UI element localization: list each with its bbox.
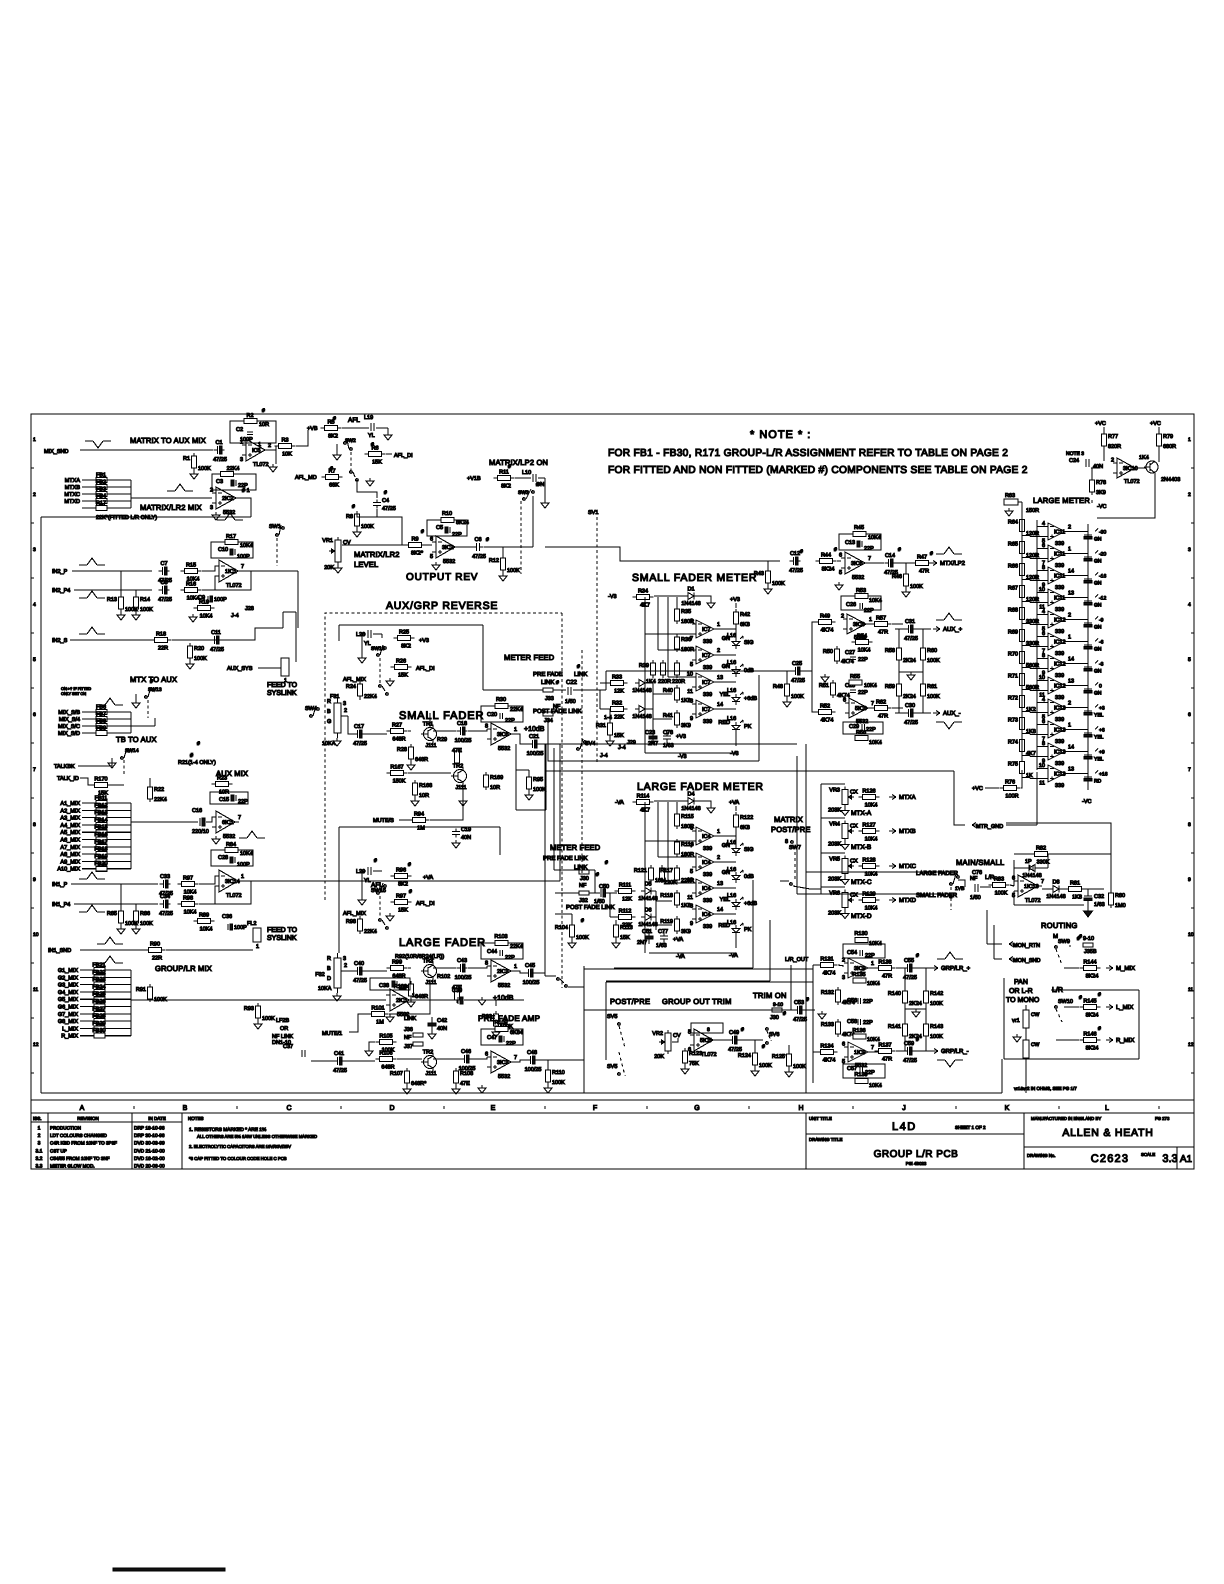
svg-text:R23: R23 bbox=[217, 776, 227, 782]
capacitor C58 bbox=[847, 1019, 873, 1026]
ground VR3 gnd bbox=[841, 808, 849, 816]
op-amp IC4 bbox=[687, 878, 723, 905]
svg-text:5: 5 bbox=[33, 657, 36, 663]
svg-text:CX: CX bbox=[850, 824, 858, 830]
svg-text:12: 12 bbox=[33, 1042, 39, 1048]
svg-text:FB22: FB22 bbox=[92, 970, 105, 976]
svg-text:-3: -3 bbox=[1099, 662, 1104, 668]
resistor R70 bbox=[1008, 650, 1025, 666]
resistor R11 bbox=[494, 470, 515, 490]
svg-text:#: # bbox=[374, 858, 377, 864]
wire R43 up bbox=[767, 561, 769, 571]
svg-text:7: 7 bbox=[241, 564, 244, 570]
svg-text:1M: 1M bbox=[376, 1020, 384, 1026]
connector FB30 bbox=[61, 1028, 131, 1040]
svg-text:C8: C8 bbox=[160, 580, 167, 586]
resistor R108 bbox=[454, 1068, 474, 1087]
svg-text:3: 3 bbox=[343, 956, 346, 962]
resistor R121 bbox=[634, 865, 666, 884]
capacitor C21 bbox=[527, 734, 544, 757]
svg-text:C30: C30 bbox=[905, 703, 915, 709]
resistor R6 bbox=[365, 446, 386, 466]
svg-text:100K: 100K bbox=[140, 607, 153, 613]
svg-text:-V3: -V3 bbox=[608, 594, 617, 600]
svg-text:203K: 203K bbox=[828, 808, 841, 814]
wire bbox=[914, 1050, 933, 1052]
net MTX/LP2 bbox=[930, 560, 966, 567]
wire to R146 bbox=[1056, 1039, 1079, 1041]
svg-text:14: 14 bbox=[1068, 569, 1074, 575]
svg-text:6: 6 bbox=[430, 537, 433, 543]
svg-text:5532: 5532 bbox=[498, 983, 510, 989]
svg-text:TL072: TL072 bbox=[226, 893, 242, 899]
svg-text:220R: 220R bbox=[658, 679, 671, 685]
feedback network R17/C10 for IC1 bbox=[211, 534, 253, 560]
svg-text:+VA: +VA bbox=[673, 937, 683, 943]
svg-text:#: # bbox=[783, 1011, 786, 1017]
resistor R51 bbox=[819, 680, 850, 699]
svg-text:47R: 47R bbox=[882, 1057, 892, 1063]
svg-text:LEVEL: LEVEL bbox=[354, 560, 378, 569]
svg-text:AUX_SYS: AUX_SYS bbox=[227, 666, 253, 672]
capacitor C12 bbox=[789, 551, 803, 574]
svg-text:8K2*: 8K2* bbox=[411, 551, 424, 557]
svg-text:C25: C25 bbox=[792, 661, 802, 667]
wire vr8 down bbox=[1025, 1063, 1027, 1093]
svg-text:SW9: SW9 bbox=[1058, 939, 1070, 945]
svg-text:FB13: FB13 bbox=[94, 810, 107, 816]
resistor R119 bbox=[660, 916, 691, 935]
op-amp 6IC1 bbox=[212, 811, 241, 840]
svg-text:C56: C56 bbox=[847, 998, 857, 1004]
capacitor C28b bbox=[845, 683, 868, 696]
wire pan box bbox=[1004, 978, 1139, 1059]
wire in bbox=[311, 1060, 334, 1062]
svg-text:22K4: 22K4 bbox=[364, 929, 377, 935]
wire C24 to IC10 bbox=[1091, 467, 1099, 469]
resistor R133 bbox=[821, 1019, 855, 1038]
svg-text:150R: 150R bbox=[1026, 508, 1039, 514]
svg-text:2: 2 bbox=[1068, 525, 1071, 531]
resistor R125 bbox=[772, 1051, 806, 1070]
wire ic5 to c49 bbox=[717, 1039, 729, 1041]
wire ic8b out bbox=[892, 707, 903, 709]
LED L16 6db bbox=[720, 692, 758, 705]
wire R101 to TR3 bbox=[389, 980, 430, 1014]
resistor R100 bbox=[394, 981, 428, 1000]
switch SV4b bbox=[557, 978, 568, 988]
resistor R170 bbox=[91, 777, 112, 797]
svg-text:J32: J32 bbox=[579, 898, 588, 904]
resistor R141 bbox=[888, 1021, 922, 1040]
ground R46 gnd bbox=[902, 589, 910, 597]
svg-text:ISS.: ISS. bbox=[33, 1116, 42, 1121]
svg-text:22P: 22P bbox=[863, 1020, 873, 1026]
svg-text:22R: 22R bbox=[152, 956, 162, 962]
wire bbox=[804, 1009, 815, 1011]
LED L10 bbox=[515, 470, 545, 500]
svg-text:47E: 47E bbox=[460, 1081, 470, 1087]
connector R17 bbox=[82, 501, 131, 511]
svg-text:FB15: FB15 bbox=[94, 825, 107, 831]
feedback network R139/C57 bbox=[843, 1064, 885, 1089]
wire R14 up bbox=[135, 590, 137, 597]
svg-text:R112: R112 bbox=[619, 909, 632, 915]
switch SW4 bbox=[310, 706, 320, 717]
svg-text:5532: 5532 bbox=[852, 575, 864, 581]
capacitor C43 bbox=[455, 958, 472, 981]
svg-text:100K: 100K bbox=[194, 656, 207, 662]
wire IC1a out down bbox=[297, 571, 299, 628]
svg-text:R68: R68 bbox=[1008, 608, 1018, 614]
wire bbox=[698, 801, 711, 805]
resistor R49 bbox=[815, 614, 836, 634]
svg-text:E: E bbox=[491, 1105, 496, 1112]
resistor R43 bbox=[754, 568, 785, 587]
svg-text:R128: R128 bbox=[862, 858, 875, 864]
svg-text:40N: 40N bbox=[437, 1026, 447, 1032]
svg-text:DVD 30-03-99: DVD 30-03-99 bbox=[134, 1141, 165, 1147]
svg-text:VR3: VR3 bbox=[829, 788, 840, 794]
transistor Q1 2N4403 bbox=[1139, 455, 1180, 483]
LED LD12 +16 bbox=[1084, 771, 1108, 785]
resistor R85 bbox=[107, 908, 138, 927]
link J30 bbox=[579, 870, 589, 882]
svg-text:R146: R146 bbox=[1083, 1032, 1096, 1038]
connector FB15 bbox=[60, 825, 131, 837]
dashed main/small bbox=[950, 887, 952, 910]
wire R79 down bbox=[1158, 449, 1160, 462]
wire to c25 bbox=[606, 670, 758, 672]
svg-text:IN1_P: IN1_P bbox=[52, 882, 68, 888]
wire R76 up bbox=[1021, 770, 1022, 788]
wire large to main bbox=[806, 871, 911, 873]
svg-text:R55: R55 bbox=[850, 674, 860, 680]
wire bbox=[755, 1039, 763, 1041]
svg-text:6: 6 bbox=[690, 826, 693, 832]
svg-text:J: J bbox=[902, 1105, 906, 1112]
capacitor C22 bbox=[565, 687, 576, 705]
ground R123 gnd bbox=[681, 1066, 689, 1074]
svg-text:339: 339 bbox=[703, 639, 712, 645]
svg-text:J30: J30 bbox=[770, 1015, 779, 1021]
svg-text:YL: YL bbox=[364, 641, 371, 647]
capacitor C6 bbox=[472, 537, 486, 560]
resistor R97 bbox=[391, 894, 412, 914]
svg-text:POST FADE LINK: POST FADE LINK bbox=[533, 708, 582, 715]
svg-text:100P: 100P bbox=[237, 554, 250, 560]
svg-text:R138: R138 bbox=[878, 960, 891, 966]
ground R28 gnd bbox=[407, 762, 415, 770]
svg-text:MATRIX TO AUX MIX: MATRIX TO AUX MIX bbox=[130, 436, 206, 445]
svg-text:C7: C7 bbox=[160, 561, 167, 567]
svg-text:MUTE/1: MUTE/1 bbox=[322, 1031, 342, 1037]
wire IC10 out bbox=[1139, 467, 1146, 469]
svg-text:+VB: +VB bbox=[307, 426, 318, 432]
svg-text:VR5: VR5 bbox=[829, 857, 840, 863]
potentiometer VR5 bbox=[828, 856, 858, 883]
svg-text:C2623: C2623 bbox=[1091, 1153, 1129, 1165]
svg-text:R60: R60 bbox=[927, 648, 937, 654]
wire large meter bus bbox=[645, 802, 696, 889]
svg-text:1. RESISTORS MARKED * ARE 1%: 1. RESISTORS MARKED * ARE 1% bbox=[189, 1127, 267, 1133]
connector FB27 bbox=[58, 1006, 131, 1018]
resistor R40 bbox=[663, 685, 691, 704]
ground R20 gnd bbox=[186, 661, 194, 669]
wire sw2 gnd bbox=[336, 444, 338, 452]
connector FB14 bbox=[60, 817, 131, 829]
capacitor C77 bbox=[656, 929, 668, 949]
svg-text:4K74: 4K74 bbox=[823, 971, 836, 977]
wire bbox=[433, 967, 456, 969]
svg-text:10K4: 10K4 bbox=[865, 837, 878, 843]
LED L16 sig lg bbox=[722, 843, 754, 856]
connector FB17 bbox=[60, 839, 131, 851]
svg-text:ALL OTHERS ARE 5% 1/4W UNLESS: ALL OTHERS ARE 5% 1/4W UNLESS OTHERWISE … bbox=[197, 1134, 317, 1139]
resistor R83 bbox=[989, 877, 1010, 897]
wire to IC3 bbox=[468, 966, 487, 968]
svg-text:* NOTE * :: * NOTE * : bbox=[750, 429, 811, 441]
connector FB28 bbox=[58, 1014, 131, 1026]
svg-text:R90: R90 bbox=[150, 942, 160, 948]
svg-text:FOR FB1 - FB30, R171 GROUP-L/R: FOR FB1 - FB30, R171 GROUP-L/R ASSIGNMEN… bbox=[608, 448, 1008, 459]
wire bbox=[408, 772, 451, 774]
svg-text:203K: 203K bbox=[828, 911, 841, 917]
wire long bus y771 bbox=[545, 770, 954, 772]
svg-text:R140: R140 bbox=[888, 991, 901, 997]
svg-text:#: # bbox=[916, 953, 919, 959]
svg-text:C47: C47 bbox=[487, 1035, 497, 1041]
svg-text:C40: C40 bbox=[354, 961, 364, 967]
svg-text:L: L bbox=[1105, 1105, 1109, 1112]
svg-text:10K4: 10K4 bbox=[865, 803, 878, 809]
svg-text:L16: L16 bbox=[727, 893, 736, 899]
svg-text:#: # bbox=[1079, 934, 1082, 940]
svg-text:IC13: IC13 bbox=[1054, 706, 1066, 712]
connector FB11 bbox=[60, 796, 131, 808]
svg-text:G: G bbox=[694, 1105, 699, 1112]
svg-text:G7_MIX: G7_MIX bbox=[58, 1012, 79, 1018]
wire to IC3b bbox=[471, 1057, 487, 1059]
svg-text:#: # bbox=[408, 862, 411, 868]
svg-text:680R: 680R bbox=[1163, 444, 1176, 450]
svg-text:GN: GN bbox=[1094, 603, 1102, 609]
svg-text:13: 13 bbox=[717, 675, 723, 681]
svg-text:MATRIX/LP2 ON: MATRIX/LP2 ON bbox=[489, 458, 548, 467]
LED LD6 -6 bbox=[1084, 639, 1104, 653]
resistor R65 bbox=[1008, 540, 1025, 556]
svg-text:1N4148: 1N4148 bbox=[632, 714, 651, 720]
wire MIX_SND to C1 bbox=[80, 449, 213, 451]
wire mtx pot bus bbox=[820, 784, 822, 894]
svg-text:#: # bbox=[330, 466, 333, 472]
svg-text:IC11: IC11 bbox=[1054, 530, 1065, 536]
LED chain small fader meter bbox=[735, 627, 737, 638]
resistor R18 bbox=[151, 632, 172, 652]
wire Q1 emitter to ladder bbox=[1097, 478, 1155, 518]
svg-text:R78: R78 bbox=[1096, 480, 1106, 486]
power -VC bbox=[1092, 500, 1107, 510]
svg-text:SHEET 1 OF 2: SHEET 1 OF 2 bbox=[955, 1125, 986, 1130]
svg-text:R21(1-4 ONLY): R21(1-4 ONLY) bbox=[178, 760, 216, 766]
wire C6 to SW3 bbox=[484, 546, 533, 548]
wire IC1a out right bbox=[251, 570, 298, 572]
svg-text:MTXC: MTXC bbox=[899, 863, 917, 870]
resistor R47 bbox=[912, 555, 933, 575]
svg-text:MIX_S/D: MIX_S/D bbox=[58, 731, 80, 737]
wire TR1 up bbox=[429, 713, 431, 727]
resistor R146 bbox=[1080, 1032, 1101, 1052]
svg-text:3K9: 3K9 bbox=[681, 929, 691, 935]
resistor R97 bbox=[178, 876, 199, 896]
wire l29 gnd bbox=[361, 871, 363, 897]
svg-text:648R*: 648R* bbox=[411, 1081, 427, 1087]
svg-text:B: B bbox=[327, 709, 331, 715]
svg-text:FB26: FB26 bbox=[92, 999, 105, 1005]
op-amp 3IC14 bbox=[215, 870, 244, 899]
wire bbox=[364, 970, 387, 972]
svg-text:A1: A1 bbox=[1180, 1154, 1193, 1165]
resistor R77 bbox=[1102, 431, 1122, 450]
LED L16 0db lg bbox=[722, 870, 754, 883]
svg-text:22P: 22P bbox=[505, 955, 515, 961]
power +VA meter bbox=[729, 800, 739, 811]
svg-text:R108: R108 bbox=[460, 1071, 473, 1077]
wire large fader loop bbox=[339, 827, 500, 953]
capacitor Cf 1P bbox=[1025, 859, 1033, 870]
svg-text:J-4: J-4 bbox=[600, 753, 608, 759]
svg-text:A5_MIX: A5_MIX bbox=[60, 830, 80, 836]
resistor R1 bbox=[183, 453, 211, 472]
resistor R66 bbox=[1008, 562, 1025, 578]
svg-text:47/25: 47/25 bbox=[789, 568, 803, 574]
svg-text:339: 339 bbox=[1055, 783, 1064, 789]
svg-text:M_MIX: M_MIX bbox=[1116, 965, 1135, 972]
ground R132 gnd bbox=[818, 1011, 826, 1019]
svg-text:C3: C3 bbox=[216, 479, 223, 485]
svg-text:2: 2 bbox=[33, 492, 36, 498]
svg-text:22K4: 22K4 bbox=[227, 466, 240, 472]
svg-text:ON->? IF FITTED: ON->? IF FITTED bbox=[61, 687, 91, 691]
svg-text:C78: C78 bbox=[663, 730, 673, 736]
svg-text:R61: R61 bbox=[927, 684, 937, 690]
svg-text:SIG: SIG bbox=[744, 640, 753, 646]
svg-text:FOR FITTED AND NON FITTED (MAR: FOR FITTED AND NON FITTED (MARKED #) COM… bbox=[608, 465, 1028, 476]
svg-text:PRE FADE LINK: PRE FADE LINK bbox=[543, 855, 588, 862]
svg-text:C33: C33 bbox=[160, 874, 170, 880]
svg-text:1N4148: 1N4148 bbox=[1046, 894, 1065, 900]
svg-text:LDT COLOURS CHANGED: LDT COLOURS CHANGED bbox=[50, 1133, 108, 1138]
resistor R117 bbox=[660, 865, 694, 884]
wire bbox=[386, 453, 392, 455]
connector J28 links bbox=[283, 612, 296, 662]
svg-text:R72: R72 bbox=[1008, 696, 1018, 702]
svg-text:R71: R71 bbox=[1008, 674, 1018, 680]
svg-text:GN: GN bbox=[1094, 691, 1102, 697]
wire to IC1 inv bbox=[202, 576, 219, 590]
op-amp 3IC6 bbox=[485, 723, 517, 752]
resistor R101 bbox=[368, 1006, 389, 1026]
svg-text:R8: R8 bbox=[346, 514, 353, 520]
svg-text:D1: D1 bbox=[687, 587, 694, 593]
svg-text:MTXA: MTXA bbox=[899, 794, 916, 801]
svg-text:47/25: 47/25 bbox=[210, 647, 224, 653]
svg-text:47R: 47R bbox=[878, 630, 888, 636]
svg-text:R44: R44 bbox=[821, 553, 831, 559]
wire bbox=[597, 689, 606, 691]
svg-text:R41: R41 bbox=[663, 713, 673, 719]
svg-text:1N4148: 1N4148 bbox=[681, 601, 700, 607]
svg-text:L16: L16 bbox=[727, 633, 736, 639]
wire IN2_S bbox=[70, 639, 155, 641]
LED chain large fader meter bbox=[735, 830, 737, 845]
svg-text:IC11: IC11 bbox=[1054, 552, 1065, 558]
resistor R123 bbox=[683, 1048, 703, 1067]
link J36/J37 bbox=[404, 1016, 423, 1050]
svg-text:5IC8: 5IC8 bbox=[855, 706, 867, 712]
svg-text:#: # bbox=[1079, 995, 1082, 1001]
ground L29 gnd bbox=[358, 897, 366, 905]
wire large fader in bbox=[911, 871, 948, 873]
ground VR1 gnd bbox=[334, 565, 342, 573]
wire c49 to r124 bbox=[739, 1040, 755, 1053]
resistor R72 bbox=[1008, 694, 1025, 710]
ground R97b gnd bbox=[386, 913, 394, 921]
wire led outputs lg bbox=[714, 836, 736, 914]
svg-text:+V1B: +V1B bbox=[467, 476, 481, 482]
svg-text:POST FADE LINK: POST FADE LINK bbox=[566, 904, 615, 911]
wire lg meter box bbox=[606, 880, 770, 981]
ground C19 gnd bbox=[452, 840, 460, 848]
LED L19 bbox=[342, 415, 388, 439]
svg-text:SMALL FADER: SMALL FADER bbox=[399, 710, 484, 722]
svg-text:G6_MIX: G6_MIX bbox=[58, 1005, 79, 1011]
svg-text:MTXC: MTXC bbox=[64, 492, 80, 498]
wire C21 out bbox=[539, 743, 562, 745]
wire lg meter input bus bbox=[645, 889, 736, 953]
svg-text:15K: 15K bbox=[398, 673, 408, 679]
svg-text:DRAWING TITLE: DRAWING TITLE bbox=[809, 1137, 843, 1142]
wire trim box top bbox=[584, 968, 813, 970]
resistor R98 bbox=[346, 916, 377, 935]
resistor R54 bbox=[852, 634, 873, 654]
svg-text:J111: J111 bbox=[425, 980, 436, 986]
svg-text:5: 5 bbox=[690, 662, 693, 668]
svg-text:R29: R29 bbox=[437, 737, 447, 743]
wire to C25 bbox=[758, 670, 793, 672]
svg-text:9: 9 bbox=[690, 716, 693, 722]
switch SW6 bbox=[766, 1028, 780, 1045]
op-amp IC11 bbox=[1042, 521, 1071, 547]
svg-text:C24: C24 bbox=[1069, 458, 1079, 464]
svg-text:R12: R12 bbox=[489, 558, 499, 564]
svg-text:CX: CX bbox=[850, 893, 858, 899]
svg-text:C4: C4 bbox=[382, 498, 389, 504]
op-amp IC4 bbox=[690, 904, 723, 931]
wire bbox=[788, 1045, 790, 1054]
svg-text:1: 1 bbox=[869, 617, 872, 623]
svg-text:R45: R45 bbox=[854, 525, 864, 531]
svg-text:YEL: YEL bbox=[1094, 735, 1104, 741]
svg-text:3: 3 bbox=[33, 547, 36, 553]
svg-text:R17: R17 bbox=[96, 501, 106, 507]
wire R3 up bbox=[296, 430, 308, 446]
connector FB6 bbox=[58, 705, 131, 717]
svg-text:14: 14 bbox=[1068, 745, 1074, 751]
svg-text:R132: R132 bbox=[821, 990, 834, 996]
svg-text:R35: R35 bbox=[681, 609, 691, 615]
svg-text:C34: C34 bbox=[160, 894, 170, 900]
